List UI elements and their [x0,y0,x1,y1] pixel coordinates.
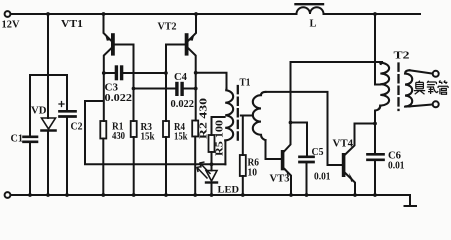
inductor L winding [297,7,324,14]
junction dots bottom rail [28,193,377,197]
transistor VT3 emitter lead with arrow [284,169,291,196]
svg-text:12V: 12V [2,20,20,31]
wire R2 bottom lead [194,137,196,196]
transformer T2 primary winding [380,63,389,106]
transistor VT1 base bar [111,33,115,55]
wire T1 secondary top to VT4 base [266,92,342,165]
capacitor C4 right lead [185,88,196,90]
svg-text:430: 430 [112,131,125,142]
resistor R2 body [192,121,198,137]
junction dot rail/VT2 emitter [194,12,198,16]
wire C1 top lead [29,75,31,136]
wire T2 primary bottom to C6 node [375,106,380,124]
wire rail to T2 primary center tap [375,14,380,85]
svg-text:VT3: VT3 [270,174,290,185]
transistor VT3 emitter arrow [285,168,290,175]
capacitor C4 plates [175,82,178,96]
capacitor C3 plates [115,65,118,80]
transistor VT4 collector lead [345,124,375,155]
wire left branch from rail (VD column) [47,14,49,118]
junction dot VT3 collector/C5 [289,121,293,125]
wire R5 tap to T1 primary [212,117,225,135]
wire VD bottom lead [47,132,49,196]
transistor VT1 collector lead [104,49,111,122]
transistor VT1 base lead [115,45,134,122]
capacitor C2 plates electrolytic [60,110,76,113]
transformer T1 secondary winding [253,92,266,140]
svg-text:0.01: 0.01 [388,161,405,172]
svg-text:C1: C1 [11,134,24,145]
svg-text:T2: T2 [394,51,410,62]
transistor VT2 emitter arrow (PNP) [190,34,195,41]
capacitor C4 left lead [134,88,176,90]
junction dot T2 bottom node [373,122,377,126]
transformer T2 secondary winding [405,70,412,106]
svg-text:0.022: 0.022 [171,99,195,110]
LED emission arrows [200,162,210,173]
svg-text:VT1: VT1 [61,19,83,30]
resistor R5 body [209,135,215,152]
capacitor C3 left lead [104,72,115,74]
wire T1 secondary center tap to R6 [241,116,253,156]
svg-text:0.01: 0.01 [314,172,331,183]
wire T2 secondary top to terminal [410,70,433,73]
terminal ozone tube top [433,71,439,77]
wire C2 top lead [66,75,68,110]
transistor VT2 base lead [166,45,185,122]
inductor L core bar [296,3,324,5]
LED body [206,171,217,182]
svg-text:C5: C5 [312,147,324,158]
resistor R4 body [163,121,169,137]
wire R4 bottom lead [165,137,167,195]
svg-text:15k: 15k [174,132,188,143]
wire R6 bottom lead [242,176,244,195]
wire VT2 collector to T1 primary top [196,73,227,89]
wire VT3 collector branch to C5 [291,123,308,156]
capacitor C5 plates [300,155,314,158]
wire T1 primary bottom to LED node [224,140,226,164]
junction dot rail/VT1 emitter [102,12,106,16]
polarity plus sign C2 [59,102,64,107]
junction dot VT2 collector/T1 wire [194,71,198,75]
wire T1 secondary bottom to VT3 base [266,140,281,159]
resistor R1 body [100,121,106,139]
transistor VT2 base bar [185,33,189,55]
transistor VT4 emitter lead with arrow [345,173,355,195]
svg-text:VT4: VT4 [333,139,354,150]
wire R3 bottom lead [133,137,135,195]
terminal ozone tube bottom [433,101,439,107]
wire parallel loop around R1 [85,101,225,164]
capacitor C1 plates [24,136,38,139]
terminal bottom negative input [5,192,11,198]
terminal 12V positive input [5,11,11,17]
wire VT3 collector to T2 primary top [291,62,384,64]
capacitor C3 right lead [124,72,166,74]
char yang (ozone tube label char 2) [427,81,438,94]
transistor VT2 emitter lead from rail [189,14,197,41]
junction dot C4/VT1 base [132,87,136,91]
char guan (ozone tube label char 3) [438,80,448,94]
svg-text:L: L [310,19,317,30]
svg-text:10: 10 [248,168,258,179]
junction dot LED top node [210,162,214,166]
wire C1 bottom lead [29,143,31,195]
svg-text:VD: VD [31,106,47,117]
junction dot rail/VD column [46,12,50,16]
transformer T2 core [397,64,399,111]
transformer T1 primary winding [225,89,233,141]
wire bottom ground rail [11,195,416,206]
capacitor C6 top lead [374,124,376,154]
wire C2 bottom lead [66,118,68,195]
svg-text:VT2: VT2 [158,22,177,33]
label ozone tube (chinese) [414,80,448,94]
resistor R3 body [131,121,137,137]
junction dot C3/VT1 collector [102,71,106,75]
svg-text:0.022: 0.022 [105,93,133,104]
wire C5 bottom lead [306,164,308,196]
wire T2 secondary bottom to terminal [410,105,433,107]
transistor VT2 collector lead [189,49,196,121]
wire R5 to LED [211,152,213,171]
wire R1 bottom lead [102,139,104,196]
junction dot C3/VT2 base [164,71,168,75]
capacitor C6 plates [368,153,384,156]
wire filter top horizontal [30,74,67,76]
transistor VT4 emitter arrow [349,173,354,182]
char chou (ozone tube label char 1) [414,81,425,95]
svg-text:C4: C4 [174,72,187,83]
svg-text:R2 430: R2 430 [198,98,209,139]
svg-text:C2: C2 [71,122,83,133]
svg-text:C3: C3 [105,83,119,94]
junction dot C4/VT2 collector [194,87,198,91]
diode VD (zener) body [42,118,56,129]
transformer T1 core [237,86,239,142]
wire C6 bottom lead [374,162,376,196]
resistor R6 body [240,155,246,176]
transistor VT3 base bar [281,150,285,170]
transistor VT1 emitter lead from rail [104,14,112,41]
wire top supply rail [11,13,420,15]
svg-text:R5 100: R5 100 [215,120,226,156]
junction dot rail/T2 center tap [373,12,377,16]
transistor VT1 emitter arrow (PNP) [105,34,110,41]
wire LED bottom lead [211,184,213,195]
svg-text:15k: 15k [141,132,155,143]
svg-text:T1: T1 [240,78,251,89]
transistor VT4 base bar [342,153,346,177]
transistor VT3 collector lead [284,62,291,152]
